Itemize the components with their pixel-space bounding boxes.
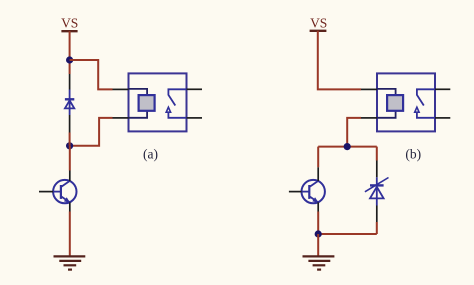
relay K2 coil core square	[387, 95, 403, 111]
relay K1 coil pin 1	[113, 88, 129, 90]
relay K1 switch pin 4	[187, 117, 203, 119]
wire VS to relay coil pin 1 (b)	[318, 31, 361, 90]
relay K1 coil bracket	[129, 89, 148, 118]
ground symbol (b)	[303, 256, 335, 269]
node A2 junction dot	[66, 142, 73, 149]
relay K2 box	[377, 73, 435, 131]
node B1 junction dot	[344, 143, 351, 150]
node B2 junction dot	[315, 230, 322, 237]
svg-text:VS: VS	[61, 15, 78, 30]
wire emitter to ground (a)	[69, 212, 71, 256]
relay K1 box	[129, 73, 187, 131]
diode D1 (flyback, cathode up)	[65, 74, 74, 133]
relay K1 coil pin 2	[113, 117, 129, 119]
wire VS to node A1	[69, 31, 71, 74]
wire emitter to node B2	[317, 212, 319, 235]
transistor Q1 (NPN)	[39, 171, 77, 212]
relay K2 coil pin 2	[361, 117, 377, 119]
wire bottom node (b)	[318, 233, 377, 235]
wire node B2 to ground (b)	[317, 234, 319, 256]
relay K1 switch contact and blade	[168, 89, 186, 105]
node A1 junction dot	[66, 56, 73, 63]
relay K1 switch armature arrow	[168, 112, 186, 118]
wire collector node top (b)	[318, 146, 377, 148]
wire diode to node A2	[69, 133, 71, 146]
svg-text:(a): (a)	[143, 146, 158, 161]
relay K2 coil bracket	[377, 89, 396, 118]
svg-text:(b): (b)	[405, 146, 421, 161]
zener diode DZ (cathode up)	[365, 147, 389, 234]
wire relay coil pin 2 to node B1	[347, 118, 361, 147]
ground symbol (a)	[54, 256, 86, 269]
relay K2 switch pin 4	[435, 117, 450, 119]
wire node A2 to transistor collector	[69, 146, 71, 171]
relay K2 switch armature arrow	[417, 112, 435, 118]
relay K1 coil core square	[139, 95, 155, 111]
relay K2 switch pin 3	[435, 88, 450, 90]
transistor Q2 (NPN)	[289, 167, 325, 211]
relay K2 coil pin 1	[361, 88, 377, 90]
wire node A2 to relay coil pin 2	[70, 118, 113, 146]
wire top node to collector (b)	[317, 147, 319, 168]
power port VS (circuit a)	[61, 15, 78, 31]
wire node A1 to relay coil pin 1	[70, 60, 113, 89]
relay K2 switch contact and blade	[417, 89, 435, 105]
svg-text:VS: VS	[310, 15, 327, 30]
power port VS (circuit b)	[310, 15, 328, 31]
relay K1 switch pin 3	[187, 88, 203, 90]
